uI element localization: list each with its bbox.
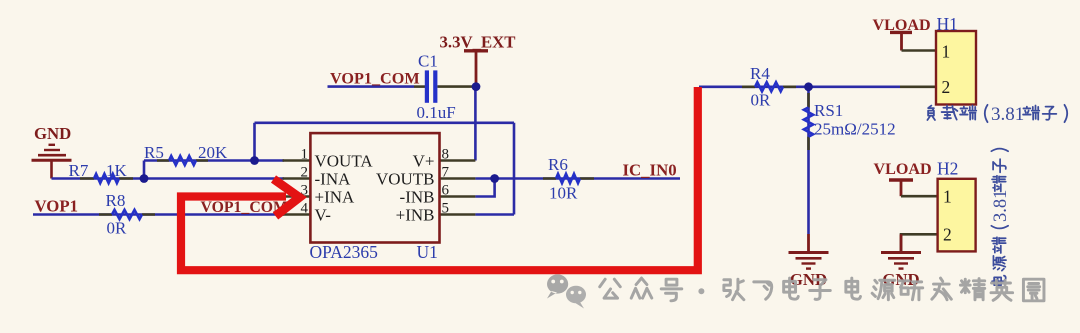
pin stubs op-amp right (440, 161, 476, 215)
wire V+ vertical (474, 87, 477, 161)
junction node VOUTB/-INB (490, 174, 499, 183)
wire H2 pin2 (901, 234, 938, 251)
svg-text:U1: U1 (417, 242, 438, 262)
junction node feedback/pin1 (250, 156, 259, 165)
svg-text:3.81: 3.81 (991, 190, 1011, 222)
watermark wechat icon (547, 274, 586, 308)
svg-text:H1: H1 (937, 14, 958, 34)
svg-text:R4: R4 (750, 64, 770, 83)
wire feedback right vertical to +INB (513, 123, 516, 215)
ground GND top-left (32, 145, 72, 179)
watermark text 公众号·张飞电子电源研发精英圈 (600, 278, 1044, 301)
resistor RS1 (shunt) (804, 93, 896, 150)
junction node R7/R5 (140, 174, 149, 183)
svg-text:0R: 0R (751, 91, 772, 110)
resistor R4 (742, 64, 796, 110)
svg-text:R6: R6 (548, 155, 568, 174)
label 负载端（3.81端子） (927, 104, 1067, 125)
wire H1 pin1 (902, 49, 937, 52)
svg-text:1: 1 (942, 42, 951, 62)
resistor R8 (99, 191, 155, 238)
red annotation path (181, 87, 698, 270)
resistor R6 (543, 155, 594, 203)
wire pin2 net (GND row) (52, 177, 285, 180)
svg-text:GND: GND (34, 124, 71, 143)
wire R5 branch vertical (143, 161, 146, 179)
svg-text:2: 2 (943, 225, 952, 245)
svg-text:VLOAD: VLOAD (874, 161, 932, 178)
svg-text:V+: V+ (413, 151, 435, 170)
svg-text:VOUTA: VOUTA (315, 151, 374, 170)
wire feedback left vertical (253, 123, 256, 161)
svg-text:VOP1_COM: VOP1_COM (330, 69, 420, 87)
op-amp pin names (315, 151, 435, 224)
power 3.3V_EXT (440, 33, 516, 87)
wire VOUTB row to IC_IN0 (475, 177, 680, 180)
svg-text:C1: C1 (418, 52, 438, 71)
red annotation arrowhead (274, 179, 300, 216)
ground GND (H2) (881, 234, 921, 268)
wire H1 pin2 stub (900, 86, 936, 89)
svg-text:+INA: +INA (315, 187, 356, 206)
svg-text:0R: 0R (107, 219, 128, 238)
wire H2 pin1 (901, 195, 938, 198)
wire C1 left (328, 85, 415, 88)
svg-text:8: 8 (442, 147, 450, 163)
wire VOP1 row to V- (33, 213, 284, 216)
svg-text:R7: R7 (69, 161, 89, 180)
wire feedback top horizontal (255, 122, 515, 125)
svg-text:7: 7 (442, 165, 450, 181)
svg-text:+INB: +INB (396, 205, 435, 224)
junction node R4/RS1 (804, 82, 813, 91)
wire R5 row to pin1 (144, 159, 284, 162)
svg-text:H2: H2 (937, 159, 958, 179)
pin stubs op-amp left (283, 161, 311, 215)
connector H1 (936, 14, 976, 104)
svg-text:VOP1: VOP1 (35, 197, 78, 216)
wire -INB tie (475, 179, 494, 197)
svg-text:6: 6 (442, 183, 450, 199)
wire R4 row (699, 86, 900, 89)
resistor R7 (69, 161, 134, 183)
svg-text:R8: R8 (106, 191, 126, 210)
svg-text:-INB: -INB (400, 187, 435, 206)
svg-text:V-: V- (315, 205, 332, 224)
svg-text:1: 1 (301, 147, 309, 163)
svg-text:2: 2 (301, 165, 309, 181)
svg-text:20K: 20K (198, 143, 228, 162)
wire RS1 vertical (807, 87, 810, 234)
svg-text:2: 2 (942, 77, 951, 97)
capacitor C1 right lead (438, 85, 476, 88)
resistor R5 (144, 143, 228, 165)
junction node C1/3.3V/V+ (472, 82, 481, 91)
op-amp pin numbers (301, 147, 450, 217)
svg-text:0.1uF: 0.1uF (417, 103, 456, 122)
svg-text:1K: 1K (106, 161, 128, 180)
svg-text:4: 4 (301, 201, 309, 217)
svg-text:5: 5 (442, 201, 450, 217)
svg-text:VLOAD: VLOAD (873, 17, 931, 34)
svg-text:10R: 10R (549, 184, 578, 203)
ground GND (below RS1) (789, 234, 829, 269)
connector H2 (937, 159, 976, 252)
capacitor C1 (417, 52, 456, 122)
wire +INB row (475, 213, 514, 216)
svg-text:-INA: -INA (315, 169, 352, 188)
op-amp U1 box (310, 133, 439, 242)
svg-text:3.81: 3.81 (991, 104, 1024, 125)
svg-text:VOUTB: VOUTB (376, 169, 435, 188)
capacitor C1 left lead (414, 85, 425, 88)
svg-text:1: 1 (943, 187, 952, 207)
svg-text:OPA2365: OPA2365 (310, 242, 379, 262)
label 电源端（3.81端子） vertical (991, 149, 1011, 286)
svg-text:IC_IN0: IC_IN0 (623, 160, 677, 179)
svg-text:25mΩ/2512: 25mΩ/2512 (814, 120, 896, 139)
svg-text:R5: R5 (144, 143, 164, 162)
power VLOAD (H2) (874, 161, 932, 196)
svg-text:RS1: RS1 (814, 101, 843, 120)
power VLOAD (H1) (873, 17, 931, 50)
svg-text:3.3V_EXT: 3.3V_EXT (440, 33, 516, 52)
